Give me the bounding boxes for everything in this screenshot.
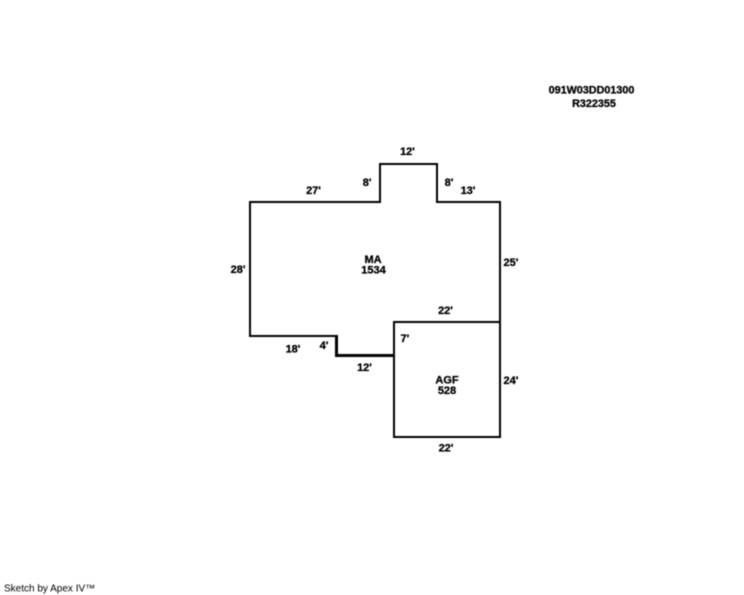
- svg-text:7': 7': [401, 333, 410, 345]
- wire: right wall (25' + 24'): [499, 201, 501, 438]
- wire: step vertical (4'): [335, 336, 338, 357]
- wire: top edge right segment (13'): [436, 201, 500, 203]
- wire: AGF top edge (22'): [393, 321, 501, 323]
- wire: bump top edge (12'): [379, 163, 438, 165]
- svg-text:4': 4': [320, 340, 329, 352]
- svg-text:27': 27': [306, 185, 321, 197]
- wire: thick step line (12'): [335, 354, 395, 357]
- svg-text:12': 12': [357, 362, 372, 374]
- wire: bump left vertical (8'): [379, 163, 381, 203]
- svg-text:Sketch by Apex IV™: Sketch by Apex IV™: [4, 584, 95, 595]
- svg-text:8': 8': [363, 177, 372, 189]
- wire: AGF left edge (7' + 24'): [393, 321, 395, 438]
- wire: bottom left edge (18'): [249, 335, 338, 337]
- svg-text:25': 25': [504, 257, 519, 269]
- svg-text:1534: 1534: [361, 265, 386, 277]
- svg-text:528: 528: [438, 385, 456, 397]
- wire: AGF bottom edge (22'): [393, 436, 501, 438]
- wire: bump right vertical (8'): [436, 163, 438, 203]
- svg-text:091W03DD01300: 091W03DD01300: [549, 85, 635, 97]
- svg-text:22': 22': [438, 305, 453, 317]
- wire: MA left wall (28'): [249, 201, 251, 337]
- svg-text:18': 18': [286, 344, 301, 356]
- svg-text:8': 8': [445, 177, 454, 189]
- svg-text:13': 13': [461, 185, 476, 197]
- svg-text:24': 24': [504, 375, 519, 387]
- svg-text:22': 22': [439, 443, 454, 455]
- svg-text:28': 28': [231, 264, 246, 276]
- svg-text:12': 12': [400, 146, 415, 158]
- svg-text:R322355: R322355: [572, 98, 616, 110]
- wire: MA top edge (27'): [249, 201, 381, 203]
